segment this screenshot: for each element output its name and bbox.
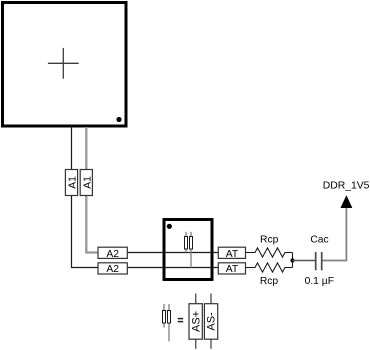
svg-text:AT: AT (226, 264, 239, 275)
resistor Rcp (top) (246, 248, 293, 257)
via label A1 (right) (80, 170, 93, 196)
wire AS- net (gray): from package down then right to A2 (top) (86, 127, 99, 253)
svg-text:A1: A1 (68, 176, 79, 189)
via label A2 (top) (98, 247, 127, 260)
element bodies (185, 237, 188, 250)
pin label AT (top) (218, 247, 245, 260)
equals sign (178, 319, 184, 322)
svg-text:0.1 µF: 0.1 µF (305, 276, 334, 287)
pin 1 dot (connector) (167, 224, 172, 229)
stub leads (gray) (186, 232, 191, 268)
svg-text:A2: A2 (106, 264, 119, 275)
differential termination symbol inside connector (185, 232, 193, 268)
pin box AS- (204, 304, 217, 340)
junction bar (292, 253, 294, 268)
legend termination symbol (163, 304, 171, 341)
svg-text:Rcp: Rcp (260, 276, 279, 287)
device outline U1 (BGA package top view) (3, 3, 127, 127)
resistor Rcp (bottom) (246, 263, 293, 272)
svg-text:Cac: Cac (310, 235, 328, 246)
svg-text:Rcp: Rcp (260, 235, 279, 246)
wire junction to capacitor (293, 260, 315, 262)
legend wire stubs (196, 294, 211, 349)
svg-text:AT: AT (226, 249, 239, 260)
connector module (thick box) (164, 220, 212, 280)
via label A1 (left) (65, 170, 78, 196)
wire capacitor to power stem (323, 208, 347, 261)
svg-text:A1: A1 (82, 176, 93, 189)
svg-text:AS-: AS- (206, 312, 218, 331)
wire AS+ net (black): from package down then right to AT row (bottom) (72, 127, 219, 268)
capacitor Cac plates (315, 252, 317, 270)
svg-text:DDR_1V5: DDR_1V5 (323, 181, 370, 192)
fiducial cross (48, 48, 79, 79)
wire top row: A2 to AT (black) (98, 252, 218, 254)
junction node dot (290, 258, 294, 262)
pin label AT (bottom) (218, 263, 245, 275)
pin box AS+ (189, 304, 202, 340)
power arrow DDR_1V5 (341, 196, 352, 208)
pin A1 dot (package) (116, 117, 121, 122)
via label A2 (bottom) (98, 263, 127, 275)
svg-text:A2: A2 (106, 249, 119, 260)
svg-text:AS+: AS+ (190, 311, 202, 332)
